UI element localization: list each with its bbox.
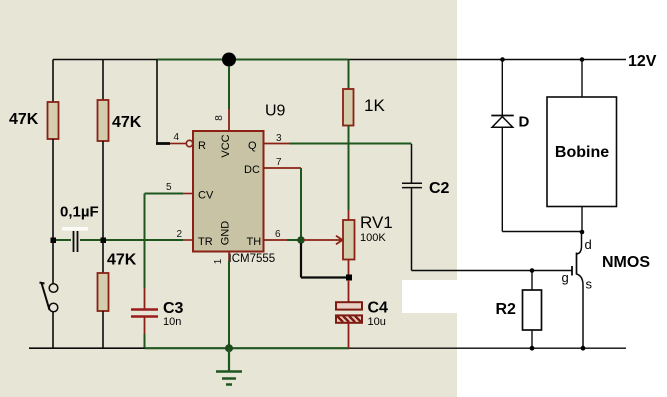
- wire: reset red stub to bubble: [170, 143, 186, 145]
- wire: reset net horizontal thick stub: [156, 142, 170, 145]
- wire: C3 bottom red lead: [144, 317, 146, 334]
- svg-text:VCC: VCC: [220, 134, 232, 157]
- svg-text:C4: C4: [368, 300, 389, 317]
- wire: gate net horizontal to NMOS: [412, 270, 573, 272]
- wire: C4 bottom lead to rail: [348, 323, 350, 349]
- pin 7 stub red: [264, 167, 302, 169]
- wire: diode bottom lead: [501, 127, 503, 231]
- node: black square junction below RV1: [346, 275, 352, 281]
- switch upper contact circle: [49, 284, 58, 293]
- wire: TR net green right of cap: [80, 239, 183, 241]
- node: junction dot on bottom rail: [225, 344, 233, 352]
- wire: from TR node down to switch: [52, 240, 54, 284]
- svg-text:NMOS: NMOS: [602, 254, 650, 271]
- node: dot gate/R2 junction: [530, 268, 535, 273]
- wire: RV1 bottom red lead: [348, 260, 350, 278]
- node: TH junction dot: [297, 236, 305, 244]
- capacitor C3 plates: [131, 310, 158, 317]
- wire: CV net vertical down to C3: [144, 194, 146, 289]
- wire: VCC net from junction down: [228, 66, 230, 109]
- pin 3 stub: [264, 143, 290, 145]
- resistor 47K (third): [98, 273, 109, 311]
- pin 6 stub: [264, 239, 288, 241]
- wire: top rail black left segment: [53, 59, 157, 61]
- pin 5 stub: [183, 193, 193, 195]
- node: big black junction on top rail: [222, 53, 236, 67]
- wire: switch to ground rail: [52, 312, 54, 349]
- resistor R2 box: [523, 290, 542, 330]
- svg-text:TH: TH: [247, 236, 262, 248]
- svg-text:5: 5: [166, 182, 172, 193]
- wire: C3 top red lead: [144, 288, 146, 309]
- svg-text:D: D: [519, 114, 530, 131]
- svg-text:Q: Q: [248, 140, 257, 152]
- wire: bottom rail green middle: [145, 347, 350, 349]
- svg-text:RV1: RV1: [360, 213, 393, 232]
- svg-text:1: 1: [213, 258, 224, 264]
- wire: CV net horizontal: [145, 193, 184, 195]
- capacitor C4 bottom plate (hatched): [336, 315, 362, 322]
- wire: bottom rail black left: [29, 347, 145, 349]
- wire: wiper return black vertical: [300, 243, 302, 278]
- capacitor C2 plates: [402, 183, 422, 187]
- wire: DC net green vertical down: [300, 168, 302, 240]
- pin 8 stub: [228, 109, 230, 131]
- potentiometer RV1 body: [343, 220, 355, 260]
- wire: diode return horizontal to drain: [502, 231, 581, 233]
- svg-text:7: 7: [276, 157, 282, 168]
- RV1 wiper arrow: [304, 239, 341, 241]
- node: dot source/rail junction: [581, 346, 586, 351]
- svg-text:4: 4: [174, 132, 180, 143]
- svg-text:8: 8: [214, 115, 225, 121]
- wire: C3 green lead to rail: [144, 334, 146, 349]
- wire: top rail green segment: [157, 59, 348, 61]
- capacitor 0,1uF plates: [74, 231, 78, 252]
- svg-text:R: R: [198, 140, 206, 152]
- transistor NMOS source lead: [577, 274, 584, 349]
- svg-text:ICM7555: ICM7555: [229, 253, 276, 265]
- diode D triangle: [492, 117, 513, 128]
- wire: third 47K bottom lead: [102, 311, 104, 349]
- svg-text:GND: GND: [220, 221, 232, 246]
- white streak above cap: [62, 227, 88, 231]
- svg-text:s: s: [586, 277, 593, 292]
- svg-text:1K: 1K: [364, 96, 385, 115]
- wire: RV1 top red stub: [348, 210, 350, 220]
- wire: R2 top lead: [531, 271, 533, 291]
- pin 4 inversion bubble: [186, 140, 192, 146]
- svg-text:12V: 12V: [628, 53, 657, 70]
- junction square at switch/cap node: [51, 238, 57, 244]
- svg-text:6: 6: [275, 229, 281, 240]
- svg-text:U9: U9: [265, 103, 286, 120]
- wire: R2 bottom lead: [531, 330, 533, 349]
- svg-text:g: g: [562, 270, 569, 285]
- svg-text:47K: 47K: [107, 252, 137, 269]
- svg-text:3: 3: [276, 133, 282, 144]
- svg-text:100K: 100K: [360, 232, 386, 244]
- schematic beige background: [0, 0, 457, 397]
- svg-text:d: d: [585, 237, 592, 252]
- wire: TR net green left of cap: [53, 239, 71, 241]
- wire: bobine bottom lead: [581, 207, 583, 233]
- resistor R 47K (left-most): [48, 102, 59, 139]
- white notch patch: [402, 280, 457, 313]
- svg-text:CV: CV: [198, 190, 214, 202]
- wire: R2 47K top lead: [102, 60, 104, 101]
- wire: R1 bottom lead down to TR node: [52, 139, 54, 240]
- wire: GND net down to rail: [228, 261, 230, 349]
- svg-text:DC: DC: [244, 164, 260, 176]
- node: dot at drain tap: [580, 230, 585, 235]
- wire: reset net vertical from top rail: [156, 60, 158, 144]
- svg-text:TR: TR: [198, 236, 213, 248]
- wire: diode top lead: [501, 60, 503, 116]
- wire: wiper return black horizontal: [301, 276, 346, 278]
- transistor NMOS gate bar: [571, 266, 573, 276]
- ground symbol bars: [216, 372, 242, 385]
- svg-text:C3: C3: [163, 300, 184, 317]
- wire: C2 bottom vertical: [411, 188, 413, 270]
- svg-text:10n: 10n: [163, 316, 181, 328]
- wire: R1 top lead: [52, 60, 54, 103]
- wire: Q net green to C2 corner: [289, 143, 412, 145]
- wire: bobine top lead: [581, 60, 583, 98]
- capacitor C4 top plate: [336, 302, 362, 309]
- svg-text:47K: 47K: [9, 111, 39, 128]
- IC U9 ICM7555 body: [193, 131, 264, 252]
- wire: 1K bottom to RV1 top: [348, 126, 350, 211]
- svg-text:2: 2: [177, 229, 183, 240]
- node: dot diode tap: [500, 57, 505, 62]
- svg-text:0,1µF: 0,1µF: [60, 204, 99, 221]
- wire: top rail black right segment to 12V: [348, 59, 626, 61]
- switch lever: [40, 283, 50, 311]
- svg-text:R2: R2: [496, 301, 517, 318]
- wire: Q net black vertical to C2: [411, 144, 413, 183]
- transistor NMOS channel bar: [576, 253, 578, 275]
- pin 1 stub: [228, 252, 230, 262]
- resistor 47K (second): [98, 100, 109, 141]
- wire: second 47K bottom lead to TR wire: [102, 141, 104, 240]
- svg-text:Bobine: Bobine: [555, 144, 609, 161]
- wire: TH net green: [287, 239, 298, 241]
- svg-text:10u: 10u: [368, 316, 386, 328]
- wire: 1K top lead: [348, 60, 350, 90]
- diode D cathode bar: [491, 115, 514, 117]
- svg-text:C2: C2: [429, 180, 450, 197]
- wire: C4 top lead: [348, 280, 350, 302]
- node: dot bobine tap: [580, 57, 585, 62]
- node: dot R2/rail junction: [530, 346, 535, 351]
- ground symbol stem: [228, 348, 230, 371]
- wire: bottom rail black right: [349, 347, 626, 349]
- pin 2 stub: [183, 239, 193, 241]
- coil Bobine box: [547, 97, 617, 207]
- svg-text:47K: 47K: [112, 114, 142, 131]
- junction square at 47K divider node: [101, 238, 107, 244]
- resistor 1K: [343, 89, 354, 126]
- transistor NMOS drain lead: [577, 232, 582, 254]
- switch lower contact circle: [49, 303, 58, 312]
- wire: divider node down to third 47K: [102, 240, 104, 273]
